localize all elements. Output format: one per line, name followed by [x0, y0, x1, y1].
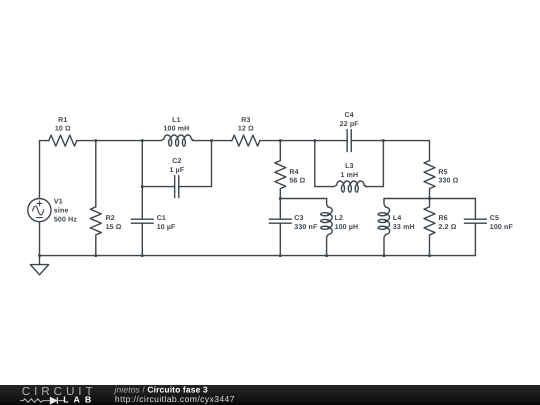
wire C4 to R5 corner	[351, 141, 429, 161]
node A R4-C3-L2	[279, 197, 282, 200]
wire C4/L3 loop right vertical	[365, 141, 383, 187]
wire C4/L3 loop left vertical	[315, 141, 334, 187]
junction C1 top	[141, 139, 144, 142]
wire C5 bottom lead	[474, 223, 476, 255]
node B R5-R6	[428, 197, 431, 200]
junction R3-R4	[279, 139, 282, 142]
wire node B row	[384, 198, 475, 200]
resistor R3	[232, 135, 260, 146]
junction C4-L3 left	[313, 139, 316, 142]
wire R6 bottom lead	[429, 236, 431, 256]
wire C2 right to top rail	[179, 141, 212, 187]
wire node A row	[280, 198, 326, 200]
footer bar	[0, 385, 540, 405]
resistor R6	[424, 207, 435, 235]
junction rail R6	[428, 254, 431, 257]
svg-text:LAB: LAB	[63, 395, 96, 405]
resistor R4	[275, 161, 286, 189]
junction rail L2	[325, 254, 328, 257]
capacitor C1	[131, 219, 153, 223]
wire C1 top lead	[141, 141, 143, 220]
wire R5 bottom lead	[429, 189, 431, 198]
resistor R5	[424, 161, 435, 189]
wire C1 bottom lead	[141, 223, 143, 255]
junction C4-L3 right	[382, 139, 385, 142]
junction L1-C2 right	[210, 139, 213, 142]
wire R2 bottom lead	[95, 236, 97, 256]
wire L1 to R3	[192, 140, 232, 142]
capacitor C4	[347, 130, 351, 152]
svg-text:jnietos / Circuito fase 3: jnietos / Circuito fase 3	[114, 384, 208, 394]
inductor L4	[384, 199, 390, 256]
inductor L1	[161, 135, 195, 141]
wire C3 top lead	[279, 199, 281, 220]
junction rail C3	[279, 254, 282, 257]
wire R4 bottom lead	[279, 189, 281, 198]
inductor L3	[334, 181, 368, 187]
voltage source V1	[28, 199, 51, 222]
wire C3 bottom lead	[279, 223, 281, 255]
wire R4 top lead	[279, 141, 281, 161]
wire C2 left	[142, 186, 174, 188]
wire C5 top lead	[474, 199, 476, 220]
logo waveform resistor	[20, 399, 64, 403]
svg-text:http://circuitlab.com/cyx3447: http://circuitlab.com/cyx3447	[115, 394, 235, 404]
junction R1-R2 top	[94, 139, 97, 142]
resistor R1	[49, 135, 77, 146]
wire V1 top lead	[39, 141, 41, 199]
wire top rail left	[40, 140, 49, 142]
wire R1 to L1	[77, 140, 161, 142]
capacitor C3	[269, 219, 291, 223]
wire R2 top lead	[95, 141, 97, 207]
capacitor C2	[175, 176, 179, 198]
wire bottom rail	[40, 255, 476, 257]
junction rail R2	[94, 254, 97, 257]
ground	[39, 256, 41, 265]
junction rail C1	[141, 254, 144, 257]
junction rail L4	[383, 254, 386, 257]
logo diode	[50, 397, 57, 404]
wire R3 to C4	[260, 140, 347, 142]
junction C2 left	[141, 185, 144, 188]
resistor R2	[90, 207, 101, 235]
capacitor C5	[464, 219, 486, 223]
inductor L2	[327, 199, 333, 256]
junction ground rail V1	[38, 254, 41, 257]
wire R6 top lead	[429, 199, 431, 207]
wire V1 bottom lead	[39, 222, 41, 256]
